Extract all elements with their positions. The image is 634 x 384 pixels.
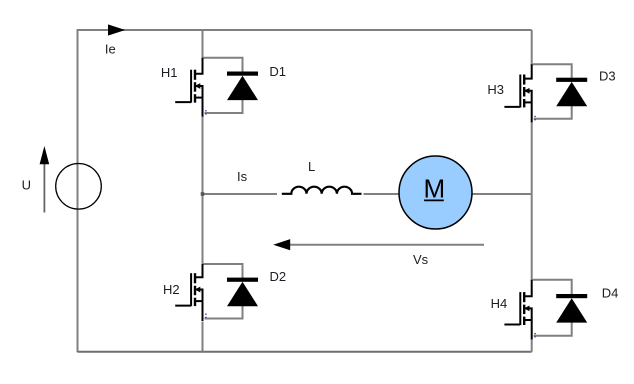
motor M circle <box>399 156 472 229</box>
label Ie <box>105 41 116 56</box>
svg-text:M: M <box>423 174 445 204</box>
label Vs <box>413 252 429 267</box>
node junction left leg and middle rail <box>201 192 205 196</box>
wire left side <box>77 29 79 352</box>
wire diode D4 loop <box>533 280 572 336</box>
wire left leg middle segment <box>202 116 204 265</box>
svg-text:Ie: Ie <box>105 41 116 56</box>
wire right leg lower segment <box>531 339 533 352</box>
svg-text:H1: H1 <box>161 65 178 80</box>
source U circle <box>56 164 102 210</box>
label M <box>423 174 445 204</box>
svg-text:Vs: Vs <box>413 252 429 267</box>
wire right leg upper segment <box>531 30 533 65</box>
transistor H4 <box>504 280 531 340</box>
svg-text:D2: D2 <box>270 269 287 284</box>
arrow U <box>40 146 50 213</box>
wire left leg lower segment <box>202 322 204 352</box>
wire diode D3 loop <box>533 64 572 119</box>
svg-text:D1: D1 <box>269 64 286 79</box>
label U <box>22 178 31 193</box>
transistor H3 <box>504 64 531 122</box>
svg-text:U: U <box>22 178 31 193</box>
label L <box>308 159 315 174</box>
wire top rail <box>78 29 532 31</box>
label D1 <box>269 64 286 79</box>
wire diode D2 loop <box>204 264 243 319</box>
transistor H1 <box>175 58 202 117</box>
wire right leg middle segment <box>531 122 533 281</box>
svg-text:Is: Is <box>237 169 248 184</box>
label H4 <box>491 296 508 311</box>
node blue dots H3 source junction <box>534 116 535 121</box>
label H2 <box>163 282 180 297</box>
svg-text:L: L <box>308 159 315 174</box>
diode D2 <box>227 278 258 307</box>
node blue dots H2 source junction <box>205 314 206 319</box>
svg-text:H3: H3 <box>487 82 504 97</box>
inductor L <box>282 187 362 194</box>
wire middle rail left segment <box>203 193 278 195</box>
label Is <box>237 169 248 184</box>
node blue dots H4 source junction <box>534 333 535 338</box>
diode D4 <box>556 294 587 323</box>
label D3 <box>599 69 616 84</box>
diode D3 <box>556 78 587 107</box>
arrow Ie on top rail <box>108 24 125 35</box>
wire middle rail right segment <box>364 193 532 195</box>
svg-text:D4: D4 <box>602 286 619 301</box>
label H1 <box>161 65 178 80</box>
wire diode D1 loop <box>204 58 243 113</box>
label H3 <box>487 82 504 97</box>
diode D1 <box>227 72 258 101</box>
svg-text:H4: H4 <box>491 296 508 311</box>
node blue dots H1 source junction <box>205 110 206 115</box>
svg-text:H2: H2 <box>163 282 180 297</box>
svg-text:D3: D3 <box>599 69 616 84</box>
transistor H2 <box>175 264 202 321</box>
wire bottom rail <box>78 351 532 353</box>
wire left leg upper segment <box>202 30 204 59</box>
label D4 <box>602 286 619 301</box>
label D2 <box>270 269 287 284</box>
arrow Vs <box>273 239 484 250</box>
